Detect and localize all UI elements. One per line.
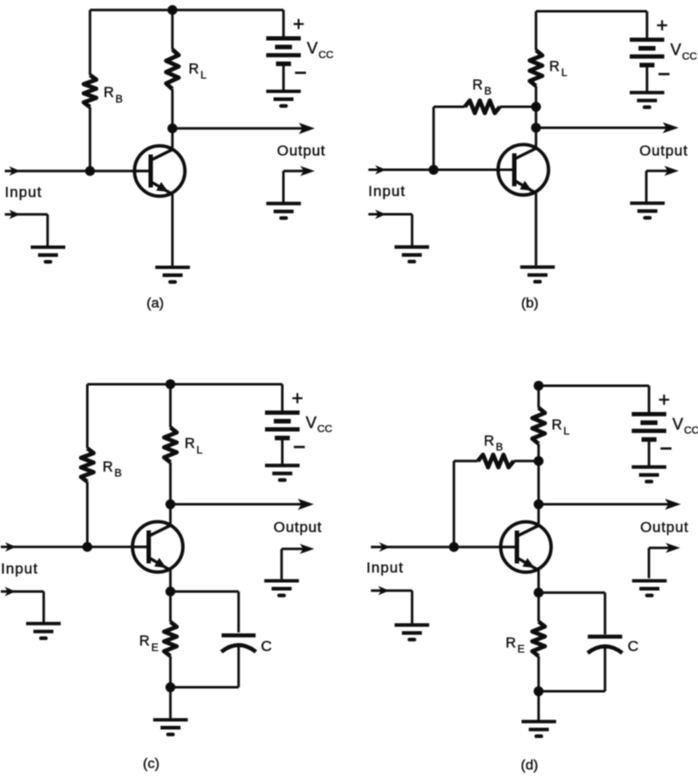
- label R_L (d): [552, 418, 570, 438]
- svg-text:CC: CC: [684, 426, 698, 437]
- wire (input ground stub b): [368, 210, 412, 246]
- ground (emitter b): [520, 267, 555, 282]
- label (c): [143, 756, 160, 772]
- svg-text:R: R: [472, 78, 482, 94]
- svg-text:Input: Input: [5, 185, 42, 201]
- label C (c): [261, 638, 272, 655]
- svg-text:(c): (c): [143, 756, 160, 772]
- wire (emitter lead a): [171, 194, 174, 265]
- node emitter-bottom junction (c): [165, 682, 175, 692]
- wire (RB top lead c): [86, 384, 89, 448]
- svg-text:B: B: [115, 467, 122, 479]
- wire (output line a): [172, 123, 314, 134]
- wire (output ground stub b): [646, 166, 679, 203]
- node emitter-bottom junction (d): [534, 686, 544, 696]
- transistor Q4 (d): [499, 522, 551, 572]
- label Output (d): [640, 520, 689, 536]
- ground (input side a): [31, 247, 66, 262]
- svg-text:C: C: [261, 638, 272, 655]
- label + terminal (V_CC (c)): [292, 393, 302, 403]
- battery V_CC (b): [630, 11, 665, 91]
- label R_L (c): [185, 436, 203, 456]
- wire (collector lead d): [537, 444, 540, 524]
- wire (emitter lead b): [535, 193, 538, 265]
- node emitter/capacitor junction (d): [534, 588, 544, 598]
- label R_B (c): [103, 459, 122, 479]
- node top-rail/RL junction (c): [165, 379, 175, 389]
- battery V_CC (c): [265, 384, 300, 464]
- wire (cap bottom return c): [170, 686, 238, 689]
- node RB/collector junction (b): [531, 102, 541, 112]
- wire (RB left lead d): [454, 460, 478, 463]
- wire (emitter ground lead d): [537, 691, 540, 720]
- resistor R_B (b): [465, 101, 500, 114]
- wire (RB bottom lead a): [89, 107, 92, 171]
- label (b): [521, 296, 538, 312]
- wire (emitter lead c): [169, 570, 172, 591]
- wire (RL top lead c): [169, 384, 172, 427]
- node collector/output junction (b): [531, 123, 541, 133]
- node collector/output junction (a): [167, 123, 177, 133]
- node top-rail/RL junction (d): [534, 381, 544, 391]
- wire (top rail d): [539, 384, 649, 387]
- label Input (b): [368, 184, 405, 200]
- wire (input ground stub c): [1, 587, 44, 623]
- wire (RE bottom lead d): [537, 656, 540, 691]
- svg-text:R: R: [104, 85, 114, 101]
- ground (output side a): [266, 204, 301, 219]
- svg-text:E: E: [151, 642, 158, 654]
- wire (cap bottom return d): [539, 690, 605, 693]
- node emitter/capacitor junction (c): [165, 587, 175, 597]
- label C (d): [628, 638, 639, 655]
- ground (battery V_CC (b)): [630, 93, 665, 108]
- node base junction (b): [429, 165, 439, 175]
- svg-text:(b): (b): [521, 296, 538, 312]
- svg-text:B: B: [116, 93, 123, 105]
- wire (RE top lead d): [537, 593, 540, 622]
- node collector/output junction (c): [165, 499, 175, 509]
- wire (RL top lead b): [535, 11, 538, 50]
- label Input (a): [5, 185, 42, 201]
- wire (collector lead a): [171, 89, 174, 148]
- resistor R_B (c): [81, 448, 94, 481]
- label + terminal (V_CC (a)): [294, 19, 304, 29]
- ground (output side d): [632, 581, 667, 596]
- label (d): [521, 757, 538, 773]
- svg-text:R: R: [552, 418, 562, 434]
- svg-text:R: R: [506, 635, 516, 651]
- wire (top rail b): [536, 10, 647, 13]
- svg-text:V: V: [670, 41, 681, 59]
- wire (output ground stub d): [649, 543, 680, 578]
- label R_E (c): [139, 634, 158, 654]
- label R_B (a): [104, 85, 123, 105]
- wire (RB bottom lead c): [86, 482, 89, 547]
- label (a): [147, 296, 164, 312]
- label - terminal (V_CC (c)): [294, 446, 305, 448]
- ground (input side d): [395, 625, 430, 640]
- resistor R_B (a): [84, 75, 97, 107]
- svg-text:(d): (d): [521, 757, 538, 773]
- wire (collector lead b): [535, 86, 538, 147]
- svg-text:Input: Input: [366, 561, 403, 577]
- node collector/output junction (d): [534, 499, 544, 509]
- wire (RE bottom lead c): [169, 656, 172, 687]
- resistor R_L (d): [532, 408, 545, 444]
- ground (battery V_CC (c)): [265, 466, 300, 481]
- wire (input line d): [371, 542, 519, 551]
- svg-text:R: R: [185, 436, 195, 452]
- wire (output ground stub a): [283, 166, 314, 203]
- wire (RB top lead a): [89, 10, 92, 75]
- svg-text:L: L: [201, 70, 207, 82]
- svg-text:R: R: [139, 634, 149, 650]
- label V_CC (V_CC (d)): [672, 415, 698, 436]
- svg-text:L: L: [197, 444, 203, 456]
- ground (emitter d): [522, 722, 557, 737]
- label R_L (a): [189, 62, 207, 82]
- svg-text:V: V: [672, 415, 683, 433]
- wire (RL top lead a): [171, 10, 174, 50]
- svg-text:CC: CC: [682, 51, 698, 62]
- label - terminal (V_CC (b)): [659, 73, 670, 75]
- ground (input side b): [395, 247, 430, 262]
- resistor R_L (a): [166, 50, 179, 90]
- label Output (c): [274, 520, 323, 536]
- wire (RB right lead d): [514, 460, 539, 463]
- label + terminal (V_CC (d)): [659, 395, 669, 405]
- capacitor C (c): [221, 635, 256, 687]
- ground (emitter c): [153, 720, 188, 735]
- transistor Q3 (c): [131, 522, 183, 572]
- wire (RL top lead d): [537, 386, 540, 408]
- wire (RE top lead c): [169, 592, 172, 622]
- label V_CC (V_CC (a)): [307, 40, 334, 61]
- label V_CC (V_CC (c)): [306, 414, 333, 435]
- svg-text:R: R: [484, 433, 494, 449]
- wire (output line d): [539, 499, 681, 510]
- label + terminal (V_CC (b)): [657, 20, 667, 30]
- resistor R_E (c): [164, 622, 177, 656]
- ground (output side b): [630, 203, 665, 218]
- resistor R_B (d): [478, 455, 514, 468]
- resistor R_L (b): [530, 50, 543, 86]
- label Output (a): [277, 144, 326, 160]
- svg-text:C: C: [628, 638, 639, 655]
- svg-text:Output: Output: [640, 520, 689, 536]
- wire (input ground stub d): [371, 586, 412, 624]
- resistor R_E (d): [532, 622, 545, 657]
- svg-text:V: V: [306, 414, 317, 432]
- ground (battery V_CC (d)): [632, 467, 667, 482]
- wire (output line b): [536, 122, 679, 133]
- ground (battery V_CC (a)): [266, 91, 301, 106]
- svg-text:B: B: [496, 441, 503, 453]
- label - terminal (V_CC (a)): [295, 72, 306, 74]
- wire (top rail c): [87, 383, 282, 386]
- label R_B (d): [484, 433, 503, 453]
- node base junction (c): [82, 542, 92, 552]
- svg-text:Input: Input: [368, 184, 405, 200]
- wire (output line c): [170, 499, 313, 510]
- svg-text:Input: Input: [1, 562, 38, 578]
- svg-text:L: L: [561, 67, 567, 79]
- label R_B (b): [472, 78, 491, 98]
- label R_L (b): [549, 59, 567, 79]
- svg-text:L: L: [564, 426, 570, 438]
- svg-text:R: R: [103, 459, 113, 475]
- ground (output side c): [264, 581, 299, 596]
- wire (feedback vertical d): [453, 461, 456, 547]
- battery V_CC (a): [266, 10, 301, 90]
- label Input (d): [366, 561, 403, 577]
- wire (top rail a): [90, 9, 284, 12]
- transistor Q2 (b): [497, 145, 549, 195]
- label V_CC (V_CC (b)): [670, 41, 697, 62]
- wire (emitter-to-cap top c): [170, 592, 238, 633]
- wire (output ground stub c): [282, 544, 315, 579]
- wire (RB left lead b): [434, 106, 465, 109]
- label Output (b): [639, 144, 688, 160]
- battery V_CC (d): [632, 386, 667, 466]
- node RB/collector junction (d): [534, 456, 544, 466]
- wire (RB right lead b): [500, 106, 536, 109]
- svg-text:Output: Output: [639, 144, 688, 160]
- ground (input side c): [26, 624, 61, 639]
- capacitor C (d): [588, 637, 623, 692]
- label R_E (d): [506, 635, 525, 655]
- svg-text:R: R: [549, 59, 559, 75]
- svg-text:(a): (a): [147, 296, 164, 312]
- svg-text:V: V: [307, 40, 318, 58]
- node top-rail/RL junction (a): [167, 5, 177, 15]
- wire (input ground stub a): [5, 210, 48, 247]
- svg-text:Output: Output: [277, 144, 326, 160]
- ground (emitter a): [155, 267, 190, 282]
- wire (emitter ground lead c): [169, 687, 172, 718]
- wire (input line b): [368, 165, 516, 174]
- label Input (c): [1, 562, 38, 578]
- label - terminal (V_CC (d)): [661, 447, 672, 449]
- svg-text:B: B: [484, 86, 491, 98]
- wire (input line a): [5, 166, 153, 175]
- node base junction (d): [449, 542, 459, 552]
- svg-text:CC: CC: [317, 424, 333, 435]
- transistor Q1 (a): [133, 146, 185, 196]
- svg-text:R: R: [189, 62, 199, 78]
- wire (input line c): [1, 542, 151, 551]
- wire (emitter-to-cap top d): [539, 593, 605, 635]
- wire (collector lead c): [169, 462, 172, 523]
- svg-text:E: E: [518, 643, 525, 655]
- wire (emitter lead d): [537, 570, 540, 592]
- resistor R_L (c): [164, 427, 177, 462]
- svg-text:Output: Output: [274, 520, 323, 536]
- svg-text:CC: CC: [319, 50, 335, 61]
- node base junction (a): [85, 166, 95, 176]
- wire (feedback vertical b): [432, 107, 435, 170]
